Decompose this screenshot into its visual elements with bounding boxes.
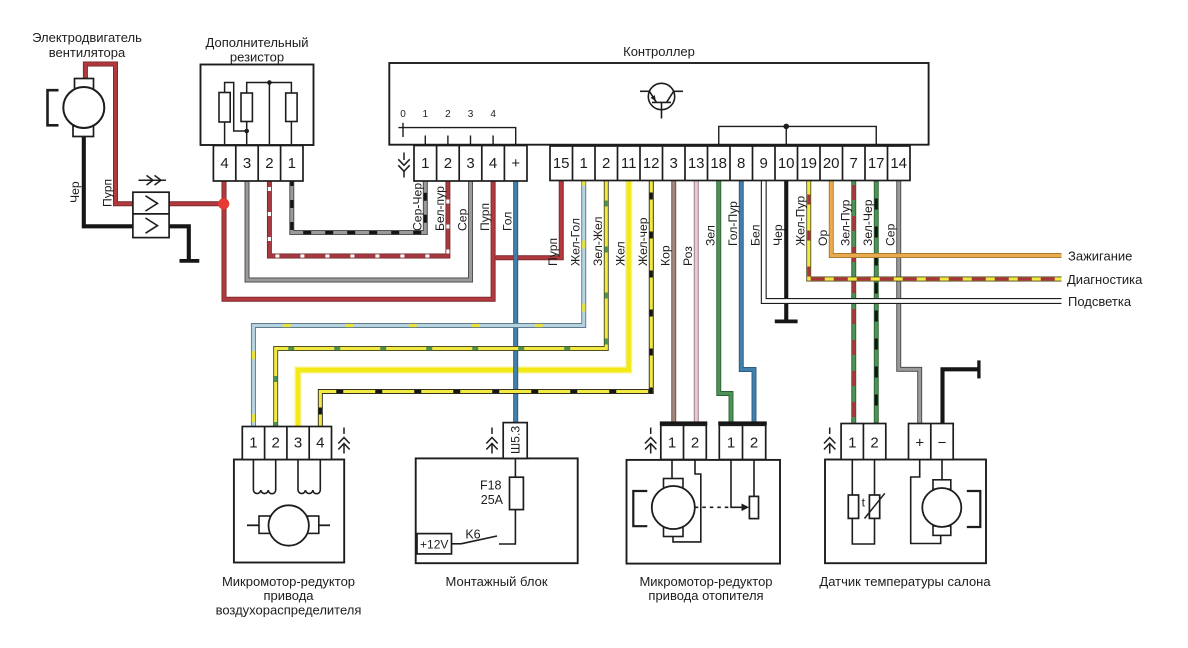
- svg-text:Датчик температуры салона: Датчик температуры салона: [819, 574, 991, 589]
- internal bus 0-4 bracket: [398, 123, 515, 145]
- svg-text:Пурп: Пурп: [101, 179, 115, 207]
- svg-text:10: 10: [778, 155, 795, 172]
- wire Сер-Чер resistor pin1 to controller pin1: [292, 181, 426, 233]
- svg-text:Бел: Бел: [749, 225, 763, 246]
- svg-text:19: 19: [800, 155, 817, 172]
- wire Сер resistor pin3 to controller pin3: [247, 181, 471, 280]
- svg-text:Жел-Пур: Жел-Пур: [794, 196, 808, 246]
- svg-text:−: −: [938, 435, 947, 452]
- svg-text:25A: 25A: [481, 493, 504, 507]
- svg-text:привода: привода: [263, 588, 314, 603]
- temp sensor module box: [825, 460, 986, 564]
- resistor R2: [241, 93, 252, 122]
- svg-text:+: +: [915, 435, 924, 452]
- svg-text:3: 3: [243, 155, 251, 172]
- connector X9 temp sensor pins + -: [909, 424, 954, 460]
- svg-text:1: 1: [423, 109, 429, 120]
- thermistor RK1: [869, 495, 879, 518]
- svg-text:Жел: Жел: [614, 241, 628, 266]
- svg-text:4: 4: [490, 109, 496, 120]
- svg-text:Роз: Роз: [681, 246, 695, 266]
- fan motor M1 (электродвигатель вентилятора): [48, 79, 105, 137]
- heater module box: [627, 460, 781, 564]
- connector X8 temp sensor pins 1 2: [841, 424, 886, 460]
- wire Чер connector to ground: [169, 226, 189, 259]
- svg-text:Дополнительный: Дополнительный: [206, 35, 309, 50]
- wire Кор pin3 to heater pin1: [671, 181, 676, 422]
- svg-text:1: 1: [288, 155, 296, 172]
- svg-text:3: 3: [294, 435, 302, 452]
- wire R5 bottom: [852, 518, 874, 544]
- svg-text:K6: K6: [465, 528, 480, 542]
- wire sensor pin1 to R5: [851, 460, 853, 496]
- svg-text:Монтажный блок: Монтажный блок: [445, 574, 547, 589]
- svg-text:4: 4: [220, 155, 228, 172]
- mounting block box: [416, 458, 578, 563]
- wire sensor pin2 to thermistor: [874, 460, 876, 496]
- svg-text:Зел: Зел: [704, 225, 718, 246]
- wire Чер battery terminal to temp sensor minus: [943, 369, 979, 423]
- svg-text:Зел-Чер: Зел-Чер: [861, 199, 875, 246]
- terminal bar (plus supply): [977, 360, 980, 378]
- wire Жел pin11 to air-distributor pin3: [298, 181, 629, 427]
- svg-text:11: 11: [621, 155, 637, 172]
- relay contact K6: [452, 536, 498, 544]
- +12V terminal box: [417, 534, 452, 554]
- wire Зел-Чер pin17 to temp sensor pin2: [874, 181, 879, 424]
- wire Жел-Пур pin19 to Диагностика: [809, 181, 1062, 280]
- svg-text:7: 7: [850, 155, 858, 172]
- svg-text:12: 12: [643, 155, 660, 172]
- svg-text:3: 3: [670, 155, 678, 172]
- controller box U1: [389, 63, 928, 145]
- svg-text:Пурп: Пурп: [478, 203, 492, 231]
- svg-text:15: 15: [553, 155, 570, 172]
- svg-text:Пурп: Пурп: [546, 238, 560, 266]
- wire minus to aspirator motor top: [941, 460, 943, 480]
- wire Сер pin14 to temp sensor plus: [899, 181, 920, 424]
- detachable connector mark (Ш5.3, pointing up): [486, 428, 497, 454]
- svg-text:1: 1: [249, 435, 257, 452]
- svg-text:Гол-Пур: Гол-Пур: [726, 201, 740, 246]
- svg-text:Подсветка: Подсветка: [1068, 294, 1132, 309]
- wire plus to aspirator motor: [911, 460, 941, 544]
- wire Гол-Пур pin8 to heater pot pin2: [741, 181, 754, 422]
- coil L2: [298, 460, 320, 494]
- wire Чер fan motor to connector: [84, 137, 133, 227]
- transistor Q1: [640, 83, 683, 118]
- detachable connector mark (temp sensor, pointing up): [824, 428, 835, 454]
- svg-text:2: 2: [265, 155, 273, 172]
- wire heater pin1 to motor: [671, 460, 673, 479]
- svg-text:18: 18: [710, 155, 727, 172]
- svg-text:F18: F18: [480, 479, 502, 493]
- svg-text:Диагностика: Диагностика: [1067, 272, 1143, 287]
- svg-text:Сер: Сер: [456, 208, 470, 231]
- wire R2 top to R3 top: [247, 83, 292, 94]
- svg-text:Зел-Пур: Зел-Пур: [839, 199, 853, 246]
- connector X6 heater motor pins 1 2: [661, 425, 707, 459]
- svg-text:4: 4: [489, 155, 497, 172]
- wire pot wiper from X7 pin1: [731, 460, 743, 508]
- svg-text:3: 3: [468, 109, 474, 120]
- svg-text:Контроллер: Контроллер: [623, 44, 695, 59]
- node A dot: [244, 129, 249, 134]
- svg-text:Жел-чер: Жел-чер: [636, 217, 650, 266]
- additional resistor box: [201, 65, 314, 146]
- svg-text:вентилятора: вентилятора: [49, 45, 126, 60]
- mechanical link dashed: [695, 506, 729, 508]
- wire fuse to relay contact: [499, 510, 515, 544]
- svg-text:Микромотор-редуктор: Микромотор-редуктор: [222, 574, 355, 589]
- svg-text:Бел-пур: Бел-пур: [433, 186, 447, 231]
- wire Жел-чер pin12 to air-distributor pin4: [320, 181, 651, 427]
- wire Бел pin9 to Подсветка: [764, 181, 1062, 302]
- svg-text:14: 14: [890, 155, 907, 172]
- connector Ш5.3 cell: [503, 423, 527, 459]
- detachable connector mark (fan, horizontal): [139, 175, 167, 185]
- wire Зел-Жел pin2 to air-distributor pin2: [276, 181, 607, 427]
- fuse F18 25A: [510, 477, 524, 509]
- svg-text:8: 8: [737, 155, 745, 172]
- internal ground bus pins 18-10-17: [719, 126, 877, 145]
- detachable connector mark (heater, pointing up): [645, 428, 656, 454]
- SECTION: wires: [84, 64, 1062, 427]
- svg-text:Жел-Гол: Жел-Гол: [569, 218, 583, 266]
- wiper arrowhead: [742, 504, 750, 512]
- detachable connector mark (controller, pointing down): [398, 153, 409, 178]
- svg-text:Чер: Чер: [771, 224, 785, 246]
- ground (controller pin10): [775, 319, 798, 323]
- coil L1: [253, 460, 275, 494]
- wire R1 top to node A: [225, 83, 247, 132]
- motor M3 (heater): [633, 479, 695, 537]
- svg-text:резистор: резистор: [230, 50, 284, 65]
- svg-text:Гол: Гол: [501, 212, 515, 231]
- connector X7 heater pot pins 1 2: [719, 425, 765, 459]
- svg-text:13: 13: [688, 155, 705, 172]
- wire Пурп fan motor to connector: [85, 64, 132, 204]
- svg-text:+12V: +12V: [420, 538, 448, 552]
- wire Пурп controller pin15 branch: [496, 181, 562, 258]
- resistor R5: [848, 495, 858, 518]
- wire Чер pin10 to ground: [784, 181, 788, 320]
- wire resistor pin4 lead: [224, 122, 226, 146]
- svg-text:20: 20: [823, 155, 840, 172]
- svg-text:привода отопителя: привода отопителя: [648, 588, 763, 603]
- resistor R1: [219, 93, 230, 123]
- svg-text:Микромотор-редуктор: Микромотор-редуктор: [639, 574, 772, 589]
- connector X7 bar (heater pot): [718, 421, 767, 425]
- svg-text:Ор: Ор: [816, 230, 830, 246]
- motor M2 (air-distributor): [247, 505, 330, 545]
- svg-text:2: 2: [444, 155, 452, 172]
- connector X6 bar (heater motor): [660, 421, 708, 425]
- svg-text:Электродвигатель: Электродвигатель: [32, 30, 142, 45]
- wire Пурп resistor pin4 to controller pin4: [224, 181, 493, 300]
- connector X4 controller 16 pins: [550, 146, 910, 181]
- svg-text:9: 9: [760, 155, 768, 172]
- svg-text:1: 1: [580, 155, 588, 172]
- svg-text:Кор: Кор: [659, 245, 673, 266]
- svg-text:17: 17: [868, 155, 885, 172]
- svg-text:2: 2: [870, 435, 878, 452]
- resistor R3: [286, 93, 297, 122]
- svg-text:1: 1: [727, 435, 735, 452]
- svg-text:Зел-Жел: Зел-Жел: [591, 217, 605, 267]
- connector X5 air-distributor pins 1 2 3 4: [242, 427, 331, 460]
- svg-text:4: 4: [316, 435, 324, 452]
- wire heater pin2 to motor bottom: [673, 460, 701, 542]
- wire R2 bottom to node A and pin3: [246, 122, 248, 146]
- svg-text:Сер: Сер: [884, 223, 898, 246]
- wire Ш5.3 to fuse: [514, 458, 516, 477]
- SECTION: components: [48, 63, 987, 564]
- air-distributor module box: [234, 460, 344, 563]
- motor M4 (aspirator fan): [922, 480, 980, 536]
- svg-text:1: 1: [848, 435, 856, 452]
- connector X1 (fan, two halves with chevrons): [133, 192, 169, 237]
- connector X2 resistor pins 4 3 2 1: [213, 146, 303, 182]
- svg-text:1: 1: [421, 155, 429, 172]
- thermistor diagonal stroke: [865, 493, 885, 518]
- node junction dot (Пурп): [218, 198, 229, 209]
- wire Роз pin13 to heater pin2: [694, 181, 699, 422]
- svg-text:Ш5.3: Ш5.3: [509, 426, 523, 454]
- wire Пурп connector to junction node: [169, 201, 224, 206]
- wire Зел-Пур pin7 to temp sensor pin1: [851, 181, 856, 424]
- svg-text:2: 2: [750, 435, 758, 452]
- wire Гол controller + to Ш5.3: [513, 181, 518, 423]
- wire Ор pin20 to Зажигание: [831, 181, 1061, 256]
- wire node B to pin2: [268, 83, 270, 146]
- svg-text:0: 0: [400, 109, 406, 120]
- node B dot: [267, 80, 272, 85]
- ground (fan motor): [180, 259, 200, 263]
- potentiometer R4: [749, 496, 758, 518]
- svg-text:2: 2: [445, 109, 451, 120]
- svg-text:1: 1: [668, 435, 676, 452]
- svg-text:2: 2: [602, 155, 610, 172]
- svg-text:Сер-Чер: Сер-Чер: [410, 183, 424, 231]
- wire Бел-пур resistor pin2 to controller pin2: [269, 181, 448, 256]
- wire pot top from X7 pin2: [753, 460, 755, 497]
- wire R3 bottom to pin1: [290, 122, 292, 146]
- detachable connector mark (air-distributor, pointing up): [338, 428, 349, 454]
- svg-text:воздухораспределителя: воздухораспределителя: [216, 603, 362, 618]
- svg-text:2: 2: [272, 435, 280, 452]
- svg-text:Зажигание: Зажигание: [1068, 249, 1132, 264]
- svg-text:Чер: Чер: [68, 181, 82, 203]
- svg-text:3: 3: [466, 155, 474, 172]
- node dot on ground bus: [783, 124, 789, 130]
- svg-text:+: +: [511, 155, 520, 172]
- wire Зел pin18 to heater pot pin1: [719, 181, 731, 422]
- svg-text:2: 2: [691, 435, 699, 452]
- connector X3 controller pins 1 2 3 4 +: [414, 146, 527, 182]
- wire Жел-Гол pin1 to air-distributor pin1: [253, 181, 583, 427]
